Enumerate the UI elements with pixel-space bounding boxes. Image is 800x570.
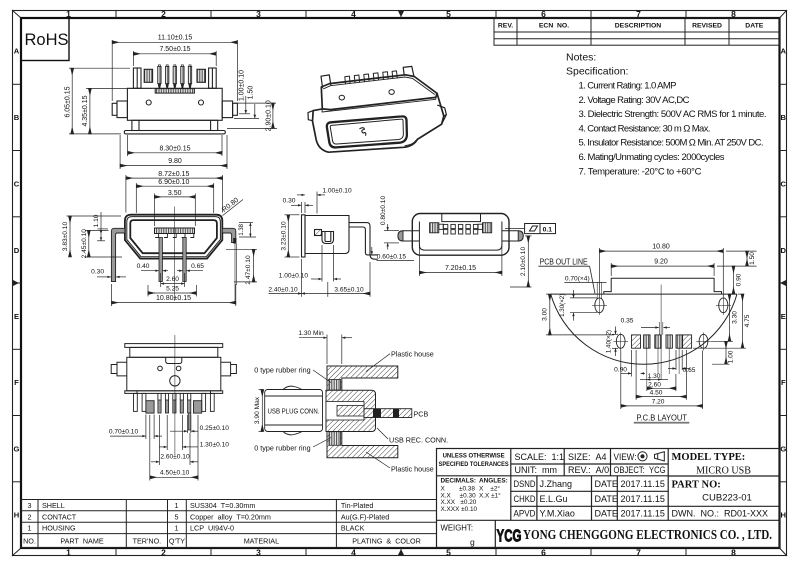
svg-text:USB PLUG CONN.: USB PLUG CONN. (268, 406, 320, 415)
svg-text:4: 4 (351, 548, 356, 558)
zone letters right (780, 47, 786, 520)
dim 4.50 (bottom) (636, 350, 686, 400)
top face (321, 75, 437, 110)
svg-text:ECN NO.: ECN NO. (539, 23, 569, 30)
svg-text:1.00±0.10: 1.00±0.10 (322, 187, 352, 194)
dim 1.00±0.10 (right) (234, 96, 276, 114)
flatness feature frame 0.1 (525, 224, 556, 234)
front collar outline (313, 93, 444, 152)
svg-text:1.00±0.10: 1.00±0.10 (239, 70, 246, 101)
svg-text:g: g (470, 537, 475, 547)
svg-text:DECIMALS:: DECIMALS: (441, 478, 477, 485)
dim 3.90 Max (259, 390, 264, 432)
svg-text:1.40(×2): 1.40(×2) (606, 330, 613, 353)
dim 10.80±0.15 (112, 284, 236, 306)
dim 1.30 (bottom) (640, 378, 668, 380)
dim 0.80±0.10 (view5 leg) (384, 224, 399, 250)
pcb outline rect (604, 278, 722, 294)
left board-lock tab (117, 101, 127, 118)
svg-text:RoHS: RoHS (24, 31, 68, 49)
dim 0.25±0.10 (170, 415, 198, 433)
svg-text:SHELL: SHELL (42, 501, 65, 510)
shell outline (412, 214, 509, 256)
svg-text:LCP UI94V-0: LCP UI94V-0 (190, 524, 234, 533)
zone ticks top/bottom (116, 10, 686, 556)
svg-text:2017.11.15: 2017.11.15 (621, 509, 665, 519)
right striped block (197, 69, 205, 82)
svg-text:G: G (780, 445, 786, 454)
dim 3.50 (154, 194, 195, 227)
rivet circle right (389, 90, 394, 95)
5 contact pads (443, 224, 477, 234)
svg-text:CONTACT: CONTACT (42, 512, 77, 521)
svg-text:3: 3 (256, 548, 261, 558)
svg-text:4.50±0.10: 4.50±0.10 (160, 470, 190, 477)
svg-text:1: 1 (28, 524, 32, 533)
right tab (221, 362, 237, 376)
dim 4.35±0.15 (86, 88, 152, 133)
R0.80 leader (223, 200, 244, 216)
dim 9.20 (611, 263, 714, 276)
svg-text:1.30±0.10: 1.30±0.10 (200, 441, 230, 448)
mouth inner (330, 119, 403, 144)
bottom skirt line (318, 140, 417, 152)
flatness frame leader (505, 228, 525, 230)
svg-text:0.1: 0.1 (543, 226, 553, 233)
dim 0.60±0.15 (right foot) (371, 247, 414, 260)
svg-text:7: 7 (636, 548, 641, 558)
dim 7.20±0.15 (419, 243, 502, 276)
svg-text:1.50: 1.50 (248, 86, 255, 100)
svg-text:UNLESS OTHERWISE: UNLESS OTHERWISE (443, 453, 506, 460)
svg-text:REV.: A/0: REV.: A/0 (568, 465, 609, 475)
svg-text:R0.80: R0.80 (221, 197, 240, 214)
zone letters left (14, 47, 20, 520)
dim 2.10±0.10 (510, 236, 532, 287)
right rear post (403, 66, 414, 76)
svg-text:7.20±0.15: 7.20±0.15 (445, 265, 476, 272)
shell inner wall (127, 217, 221, 257)
svg-text:F: F (14, 378, 19, 387)
svg-text:DATE: DATE (595, 479, 618, 489)
dim 1.30±0.10 (159, 415, 198, 450)
right board-lock tab (222, 101, 232, 118)
dim 0.40 (141, 270, 168, 272)
dim 4.50±0.10 (150, 415, 198, 481)
svg-text:C: C (14, 180, 20, 189)
left striped block (144, 69, 152, 82)
svg-text:4.50: 4.50 (650, 390, 663, 397)
svg-text:Au(G.F)-Plated: Au(G.F)-Plated (341, 512, 389, 521)
big circle (170, 376, 180, 386)
svg-text:0.65: 0.65 (191, 263, 204, 270)
svg-text:USB REC. CONN.: USB REC. CONN. (389, 435, 448, 444)
svg-text:0.65: 0.65 (683, 367, 696, 374)
svg-text:DWN. NO.: RD01-XXX: DWN. NO.: RD01-XXX (672, 509, 769, 519)
svg-text:3.00: 3.00 (542, 308, 549, 321)
dim 0.65 (177, 270, 203, 272)
svg-text:NO.: NO. (23, 537, 36, 546)
dim 3.00 (left) (546, 294, 614, 335)
small circles (158, 366, 163, 371)
svg-text:1: 1 (175, 501, 179, 510)
dim 1.40(x2) (left oval) (612, 327, 618, 357)
terminal lead inner edge + foot (349, 227, 378, 255)
shell legs (134, 393, 215, 411)
svg-text:2.47±0.10: 2.47±0.10 (245, 255, 252, 285)
svg-text:TER'NO.: TER'NO. (133, 537, 162, 546)
dim 3.83±0.10 (left) (67, 216, 122, 257)
mating flange (302, 215, 306, 257)
svg-text:YONG CHENGGONG ELECTRONICS CO.: YONG CHENGGONG ELECTRONICS CO. , LTD. (523, 527, 772, 542)
dim 1.38 (right) (239, 223, 256, 237)
svg-text:8.72±0.15: 8.72±0.15 (158, 171, 189, 178)
svg-text:5.25: 5.25 (166, 286, 179, 293)
dim 2.60 (bottom) (647, 374, 676, 391)
top plate (125, 344, 223, 348)
centerline (174, 335, 176, 455)
svg-text:0.70(×4): 0.70(×4) (565, 276, 590, 283)
svg-text:H: H (14, 511, 19, 520)
shield pads gray (146, 401, 154, 413)
main shell body (127, 88, 222, 120)
svg-text:11.10±0.15: 11.10±0.15 (158, 35, 193, 42)
dim 11.10±0.15 (112, 40, 237, 101)
svg-text:3.30: 3.30 (731, 311, 738, 324)
svg-text:PART NAME: PART NAME (60, 537, 103, 546)
svg-text:REV.: REV. (498, 23, 513, 30)
view symbols (638, 452, 664, 461)
svg-text:8: 8 (731, 548, 736, 558)
svg-text:BLACK: BLACK (341, 524, 365, 533)
svg-text:3: 3 (28, 501, 32, 510)
body (305, 216, 349, 254)
svg-text:Plastic house: Plastic house (391, 350, 434, 359)
svg-text:10.80±0.15: 10.80±0.15 (156, 295, 191, 302)
svg-text:Notes:: Notes: (566, 52, 596, 64)
svg-text:VIEW:: VIEW: (614, 452, 637, 462)
svg-text:PCB: PCB (414, 409, 429, 418)
svg-text:DATE: DATE (595, 509, 618, 519)
contact hatched block (315, 230, 322, 236)
zone ticks left/right (12, 84, 787, 482)
svg-text:UNIT: mm: UNIT: mm (515, 465, 558, 475)
dim 1.00 (right bottom) (712, 341, 730, 364)
svg-text:7.50±0.15: 7.50±0.15 (159, 46, 190, 53)
dim 7.50±0.15 (133, 51, 216, 66)
dim 1.10 (left) (97, 212, 108, 241)
dim 2.45±0.10 (left) (85, 230, 122, 257)
svg-text:X ±2°: X ±2° (479, 485, 500, 493)
dim 6.90±0.10 (136, 183, 213, 213)
svg-text:4.75: 4.75 (744, 314, 751, 327)
svg-text:YCG: YCG (497, 526, 522, 546)
svg-text:B: B (14, 113, 20, 122)
rivet circle right (199, 100, 204, 105)
collar inner rim top (322, 97, 436, 112)
svg-text:PART NO:: PART NO: (672, 480, 721, 491)
svg-text:1.00±0.10: 1.00±0.10 (279, 273, 309, 280)
svg-text:E: E (781, 312, 786, 321)
outer shell (125, 215, 222, 259)
5 contact pins on top (158, 65, 192, 89)
svg-text:B: B (781, 113, 787, 122)
dim 0.30 (left leg width) (97, 276, 126, 278)
svg-text:3.90 Max: 3.90 Max (254, 396, 261, 424)
svg-text:J.Zhang: J.Zhang (540, 479, 573, 489)
dim 0.30 (top) (291, 202, 313, 213)
svg-text:1.30: 1.30 (648, 373, 661, 380)
cavity opening (130, 220, 217, 253)
svg-text:Specification:: Specification: (566, 66, 628, 78)
base plate (124, 131, 225, 134)
svg-text:2.60±0.10: 2.60±0.10 (160, 454, 190, 461)
dim 2.60±0.10 (151, 415, 198, 465)
svg-text:3.50: 3.50 (168, 190, 182, 197)
dim 1.00±0.10 (top) (297, 192, 325, 214)
svg-text:E.L.Gu: E.L.Gu (540, 494, 568, 504)
svg-text:0.40: 0.40 (137, 263, 150, 270)
svg-text:A: A (14, 47, 20, 56)
rivet circle left (339, 95, 344, 100)
contact legs through cavity (159, 238, 162, 282)
dim 0.90 (pads left) (621, 350, 645, 377)
svg-text:1.00: 1.00 (728, 350, 735, 363)
svg-text:0 type rubber ring: 0 type rubber ring (254, 443, 310, 452)
svg-text:MICRO USB: MICRO USB (696, 466, 751, 477)
svg-text:CUB223-01: CUB223-01 (702, 493, 752, 504)
svg-text:1: 1 (175, 524, 179, 533)
bottom bar (125, 391, 223, 394)
svg-text:6: 6 (541, 548, 546, 558)
svg-text:1.50: 1.50 (749, 252, 756, 265)
pin 5 extended tail (188, 413, 191, 430)
5 contact pins (158, 393, 191, 413)
dim 10.80 (599, 248, 723, 297)
svg-text:X.XXX ±0.10: X.XXX ±0.10 (441, 506, 478, 513)
svg-text:SCALE: 1:1: SCALE: 1:1 (515, 452, 565, 462)
dim 5.25 (148, 285, 196, 296)
svg-text:1.38: 1.38 (239, 223, 245, 235)
svg-text:5: 5 (446, 9, 451, 19)
main body (127, 357, 221, 391)
dim 1.50 (right) (234, 104, 259, 118)
svg-text:D: D (14, 246, 20, 255)
plastic house bottom (327, 431, 398, 458)
dim 2.90±0.10 (right) (227, 103, 277, 128)
svg-text:DATE: DATE (745, 23, 763, 30)
plastic house top (327, 366, 398, 391)
svg-text:WEIGHT:: WEIGHT: (441, 524, 474, 533)
lower oval left (614, 333, 629, 351)
dim 8.72±0.15 (126, 175, 223, 213)
svg-text:1.30 Min: 1.30 Min (298, 330, 324, 337)
dim 0.35 (641, 326, 670, 328)
dim 2.60 (161, 273, 185, 287)
right ear bracket (209, 68, 217, 88)
mount hole right (716, 296, 731, 315)
dim 1.00±0.10 (bottom) (311, 245, 341, 282)
svg-text:Tin-Plated: Tin-Plated (341, 501, 374, 510)
svg-text:DSND: DSND (514, 479, 536, 489)
svg-text:E: E (14, 312, 19, 321)
left small bump (308, 111, 313, 121)
dim 1.30 Min (299, 335, 352, 365)
svg-text:6.90±0.10: 6.90±0.10 (158, 179, 189, 186)
lower oval right (696, 333, 711, 351)
dim 0.70±0.10 (110, 415, 162, 440)
dims 2.40±0.10 / 3.65±0.10 (bottom) (269, 259, 370, 297)
svg-text:2.45±0.10: 2.45±0.10 (81, 229, 88, 259)
signal pads (644, 335, 683, 348)
svg-text:SPECIFIED TOLERANCES: SPECIFIED TOLERANCES (439, 461, 510, 468)
dim 1.30(x2) (left hole) (570, 290, 597, 321)
usb plug (265, 386, 323, 435)
inner blocks left (430, 223, 439, 233)
mouth outer (327, 116, 407, 147)
collar (130, 347, 218, 357)
svg-text:5: 5 (175, 512, 179, 521)
left ear bracket (133, 68, 141, 88)
svg-text:9.80: 9.80 (168, 158, 182, 165)
svg-text:ANGLES:: ANGLES: (479, 478, 508, 485)
shield pads (632, 335, 641, 348)
svg-text:Plastic house: Plastic house (391, 465, 434, 474)
svg-text:C: C (781, 180, 787, 189)
dim 1.50 (717, 251, 757, 266)
svg-text:2: 2 (28, 512, 32, 521)
svg-text:CHKD: CHKD (514, 494, 536, 504)
svg-text:HOUSING: HOUSING (42, 524, 76, 533)
svg-text:Q'TY: Q'TY (169, 537, 185, 546)
svg-text:0.25±0.10: 0.25±0.10 (200, 425, 230, 432)
zone numbers top (66, 9, 736, 19)
mount hole left (592, 296, 607, 315)
svg-text:0.30: 0.30 (91, 269, 104, 276)
svg-text:1: 1 (66, 548, 71, 558)
pad centerlines (647, 285, 679, 391)
svg-text:2017.11.15: 2017.11.15 (621, 494, 665, 504)
right leg (502, 231, 523, 241)
svg-text:2017.11.15: 2017.11.15 (621, 479, 665, 489)
RoHS box (21, 18, 69, 61)
pcb bar (364, 409, 412, 418)
svg-text:0.70±0.10: 0.70±0.10 (109, 429, 139, 436)
right shell leg (222, 228, 236, 242)
svg-text:4. Contact Resistance: 30 m Ω: 4. Contact Resistance: 30 m Ω Max. (579, 123, 711, 134)
left shell leg (111, 228, 125, 281)
dim 6.05±0.15 (69, 68, 130, 134)
svg-text:REVISED: REVISED (692, 23, 722, 30)
svg-text:7. Temperature: -20°C to +60°C: 7. Temperature: -20°C to +60°C (579, 166, 702, 177)
svg-text:5: 5 (446, 548, 451, 558)
outer chord + arc (551, 293, 737, 295)
svg-text:DATE: DATE (595, 494, 618, 504)
svg-text:4: 4 (351, 9, 356, 19)
top face rear inner line (324, 77, 435, 94)
svg-text:1.30(×2): 1.30(×2) (559, 294, 566, 317)
contact slot (322, 232, 334, 244)
svg-text:0.35: 0.35 (621, 318, 634, 325)
receptacle cavity (326, 402, 364, 421)
dim 3.23±0.10 (left) (285, 215, 300, 257)
svg-text:8.30±0.15: 8.30±0.15 (159, 145, 190, 152)
inner wall (419, 222, 502, 251)
rear pins row (345, 71, 397, 84)
terminal lead top bar (349, 223, 378, 260)
svg-text:F: F (781, 378, 786, 387)
svg-text:OBJECT: YCG: OBJECT: YCG (614, 465, 666, 475)
svg-text:2.90±0.10: 2.90±0.10 (265, 100, 272, 131)
svg-text:0 type rubber ring: 0 type rubber ring (254, 365, 310, 374)
svg-text:Copper alloy T=0.20mm: Copper alloy T=0.20mm (190, 512, 271, 521)
rubber ring top (329, 380, 341, 391)
svg-text:1. Current Rating: 1.0 AMP: 1. Current Rating: 1.0 AMP (579, 81, 677, 92)
rubber ring bottom (329, 432, 341, 446)
svg-text:A: A (781, 47, 787, 56)
tongue squiggle (360, 128, 366, 136)
svg-text:0.80±0.10: 0.80±0.10 (380, 196, 387, 226)
zone numbers bottom (66, 548, 736, 558)
svg-text:Y.M.Xiao: Y.M.Xiao (540, 509, 575, 519)
center notch (166, 357, 182, 363)
dim 2.47±0.10 (right) (226, 249, 257, 282)
right latch bump (438, 105, 447, 124)
svg-text:APVD: APVD (514, 509, 536, 519)
dim 7.20 (bottom) (621, 351, 703, 410)
dim 4.75 (693, 294, 746, 348)
svg-text:DESCRIPTION: DESCRIPTION (615, 23, 662, 30)
svg-text:3.23±0.10: 3.23±0.10 (280, 221, 287, 251)
svg-text:5. Insulator Resistance: 500M: 5. Insulator Resistance: 500M Ω Min. AT … (579, 138, 764, 149)
svg-text:3.83±0.10: 3.83±0.10 (62, 222, 69, 252)
svg-text:2.60: 2.60 (166, 276, 179, 283)
svg-text:H: H (781, 511, 786, 520)
dim 9.80 (120, 135, 227, 169)
svg-text:P.C.B LAYOUT: P.C.B LAYOUT (637, 413, 688, 422)
svg-text:2.40±0.10: 2.40±0.10 (268, 287, 298, 294)
dim 8.30±0.15 (128, 135, 222, 156)
pin seat bar (155, 89, 194, 94)
dim 0.90 (right top) (734, 266, 745, 294)
svg-text:MATERIAL: MATERIAL (244, 537, 279, 546)
svg-text:3. Dielectric Strength: 500V A: 3. Dielectric Strength: 500V AC RMS for … (579, 109, 767, 120)
svg-text:0.90: 0.90 (736, 273, 743, 286)
svg-text:PCB OUT LINE: PCB OUT LINE (540, 257, 588, 266)
centerline (174, 207, 176, 302)
inner blocks right (483, 223, 492, 233)
svg-text:0.30: 0.30 (283, 198, 296, 205)
svg-text:6. Mating/Unmating cycles: 200: 6. Mating/Unmating cycles: 2000cycles (579, 152, 725, 163)
svg-text:6.05±0.15: 6.05±0.15 (65, 86, 72, 117)
pcb slot white (364, 409, 376, 418)
rear notch (442, 214, 481, 222)
svg-text:MODEL TYPE:: MODEL TYPE: (672, 452, 746, 463)
left rear post (321, 75, 331, 88)
left tab (111, 362, 127, 376)
svg-text:2. Voltage Rating: 30V AC,DC: 2. Voltage Rating: 30V AC,DC (579, 95, 690, 106)
svg-text:SUS304 T=0.30mm: SUS304 T=0.30mm (190, 501, 255, 510)
svg-text:3.65±0.10: 3.65±0.10 (334, 287, 364, 294)
tongue with contacts (155, 228, 195, 234)
svg-text:2.10±0.10: 2.10±0.10 (520, 247, 527, 277)
dim 0.65 (pads right) (668, 350, 690, 370)
dim 3.30 (711, 294, 733, 341)
svg-text:3: 3 (256, 9, 261, 19)
svg-text:2: 2 (161, 548, 166, 558)
lower skirt (132, 120, 218, 130)
svg-text:X ±0.38: X ±0.38 (441, 486, 476, 493)
